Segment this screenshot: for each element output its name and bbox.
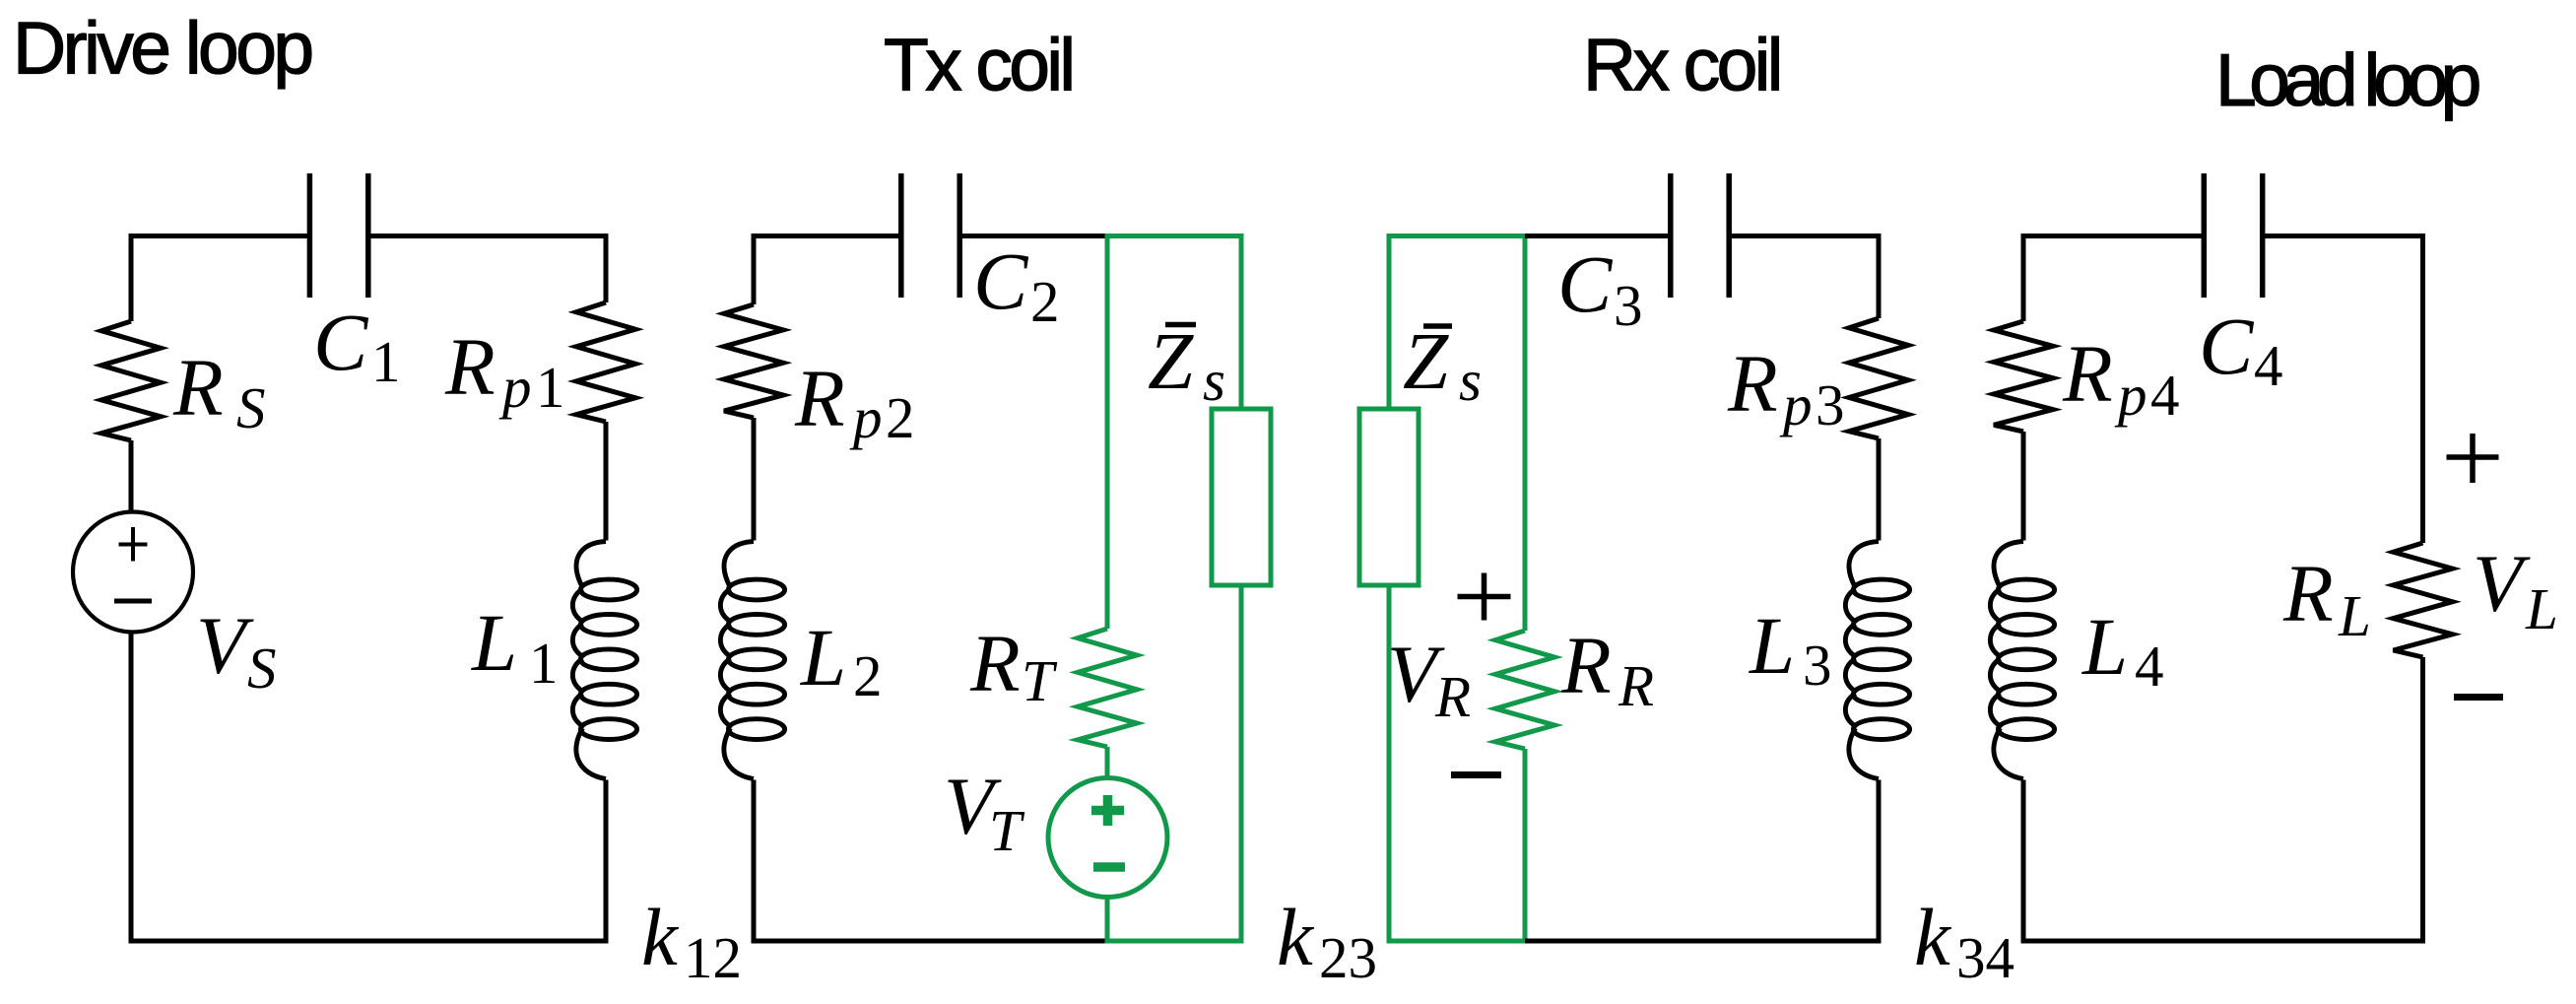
svg-text:s: s (1203, 348, 1225, 413)
svg-text:1: 1 (536, 355, 565, 420)
svg-text:Tx coil: Tx coil (884, 24, 1073, 106)
svg-text:4: 4 (2254, 333, 2283, 398)
svg-text:L: L (471, 597, 517, 688)
svg-text:V: V (2473, 538, 2531, 629)
svg-text:1: 1 (371, 329, 401, 394)
svg-text:T: T (1022, 648, 1058, 713)
svg-text:L: L (2525, 576, 2558, 641)
svg-text:R: R (1434, 664, 1471, 729)
svg-text:k: k (1914, 892, 1952, 982)
svg-text:L: L (1749, 600, 1795, 691)
svg-text:L: L (800, 612, 846, 703)
svg-text:R: R (1560, 620, 1612, 710)
svg-text:R: R (2282, 548, 2334, 638)
svg-text:R: R (969, 618, 1021, 708)
svg-text:L: L (2081, 601, 2128, 692)
svg-text:3: 3 (1614, 273, 1643, 338)
svg-text:C: C (2199, 301, 2255, 391)
svg-text:k: k (641, 892, 680, 982)
svg-text:R: R (172, 342, 224, 433)
svg-text:R: R (1727, 338, 1778, 429)
svg-text:3: 3 (1816, 372, 1845, 437)
svg-text:k: k (1277, 892, 1315, 982)
svg-text:S: S (247, 636, 277, 701)
svg-text:2: 2 (1030, 269, 1060, 334)
svg-text:2: 2 (886, 385, 915, 450)
svg-text:R: R (2062, 328, 2113, 419)
svg-text:p: p (849, 385, 883, 450)
svg-text:Z: Z (1148, 315, 1194, 406)
svg-text:s: s (1459, 348, 1482, 413)
svg-text:T: T (989, 798, 1025, 863)
svg-text:C: C (1557, 238, 1614, 329)
svg-text:p: p (2114, 363, 2147, 428)
svg-text:1: 1 (529, 631, 559, 696)
svg-text:34: 34 (1956, 925, 2015, 990)
svg-text:V: V (196, 600, 254, 691)
svg-text:p: p (1779, 372, 1813, 437)
svg-text:R: R (444, 321, 495, 412)
svg-text:Drive loop: Drive loop (13, 7, 311, 90)
svg-text:Rx coil: Rx coil (1583, 24, 1780, 106)
svg-text:R: R (1618, 653, 1654, 718)
svg-text:4: 4 (2135, 634, 2164, 699)
svg-text:p: p (498, 355, 532, 420)
svg-text:S: S (236, 375, 266, 440)
svg-text:L: L (2338, 583, 2371, 648)
svg-text:2: 2 (853, 643, 883, 708)
svg-text:23: 23 (1319, 925, 1377, 990)
svg-text:3: 3 (1803, 633, 1832, 698)
svg-text:C: C (973, 235, 1029, 326)
svg-text:Z: Z (1403, 315, 1449, 406)
svg-text:C: C (313, 297, 369, 387)
svg-text:12: 12 (684, 925, 742, 990)
svg-text:R: R (794, 353, 845, 443)
svg-text:Load loop: Load loop (2215, 38, 2479, 121)
svg-text:4: 4 (2150, 363, 2180, 428)
